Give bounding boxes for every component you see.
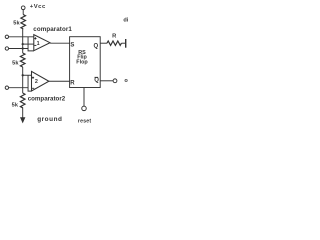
node divider to comp1 - input dot — [22, 43, 24, 45]
svg-text:5k: 5k — [12, 61, 19, 67]
wire control voltage jog to comp1 bottom corner — [9, 49, 34, 51]
wire threshold to comparator1 + input — [9, 36, 34, 38]
wire Q output to resistor R — [100, 42, 107, 44]
svg-text:Q: Q — [94, 77, 99, 83]
op-amp comparator 1 — [34, 35, 50, 51]
resistor R2 5k — [20, 53, 25, 67]
trigger terminal — [5, 86, 8, 89]
resistor R1 5k — [21, 15, 26, 29]
wire Vcc to R1 — [22, 10, 24, 15]
node dot CV on divider — [22, 47, 24, 49]
output terminal — [113, 79, 117, 83]
wire R3 to ground — [22, 107, 24, 118]
resistor R3 5k — [20, 93, 25, 108]
op-amp comparator 2 — [32, 71, 49, 91]
wire comp2 output to R — [49, 80, 70, 82]
threshold terminal — [5, 35, 8, 38]
svg-text:comparator2: comparator2 — [28, 95, 66, 102]
control voltage terminal — [5, 47, 8, 50]
Qbar overline — [95, 76, 99, 78]
svg-text:5k: 5k — [13, 20, 20, 26]
wire comp2 input link vertical — [27, 75, 29, 87]
wire reset — [83, 88, 85, 107]
resistor R horizontal — [107, 41, 121, 45]
+Vcc terminal — [21, 6, 25, 10]
comparator 2 plus — [32, 77, 34, 79]
wire comp1 input link vertical — [27, 37, 29, 49]
wire divider node to comp1 - input — [23, 43, 34, 45]
transistor Q base bar — [125, 39, 127, 48]
wire trigger jog to comp2 bottom corner — [9, 88, 32, 91]
comparator 1 minus — [34, 44, 36, 46]
svg-text:+Vcc: +Vcc — [30, 4, 46, 10]
svg-text:5k: 5k — [12, 103, 19, 109]
wire R to transistor base — [121, 42, 125, 44]
svg-text:R: R — [70, 81, 75, 87]
node dot divider to comp2 — [22, 74, 24, 76]
svg-text:S: S — [70, 42, 74, 48]
svg-text:1: 1 — [37, 41, 40, 47]
svg-text:Q: Q — [94, 44, 99, 50]
svg-text:reset: reset — [78, 118, 91, 124]
comparator 1 plus — [34, 37, 36, 39]
wire R2 to R3 divider line — [22, 67, 24, 93]
ground symbol arrow — [20, 117, 25, 123]
svg-text:ou: ou — [124, 78, 128, 84]
wire comp1 output to S — [50, 42, 70, 45]
wire R1 to R2 divider line — [22, 29, 25, 53]
comparator 2 minus — [32, 87, 34, 89]
RS flip flop box — [70, 37, 101, 88]
svg-text:2: 2 — [35, 79, 38, 85]
svg-text:Flop: Flop — [76, 60, 88, 66]
wire divider node2 to comp2 + input — [23, 74, 32, 76]
reset terminal — [82, 106, 87, 111]
svg-text:R: R — [112, 34, 117, 40]
svg-text:comparator1: comparator1 — [33, 26, 72, 33]
svg-text:di: di — [123, 17, 128, 23]
svg-text:ground: ground — [37, 116, 62, 123]
wire Qbar output — [100, 80, 113, 82]
